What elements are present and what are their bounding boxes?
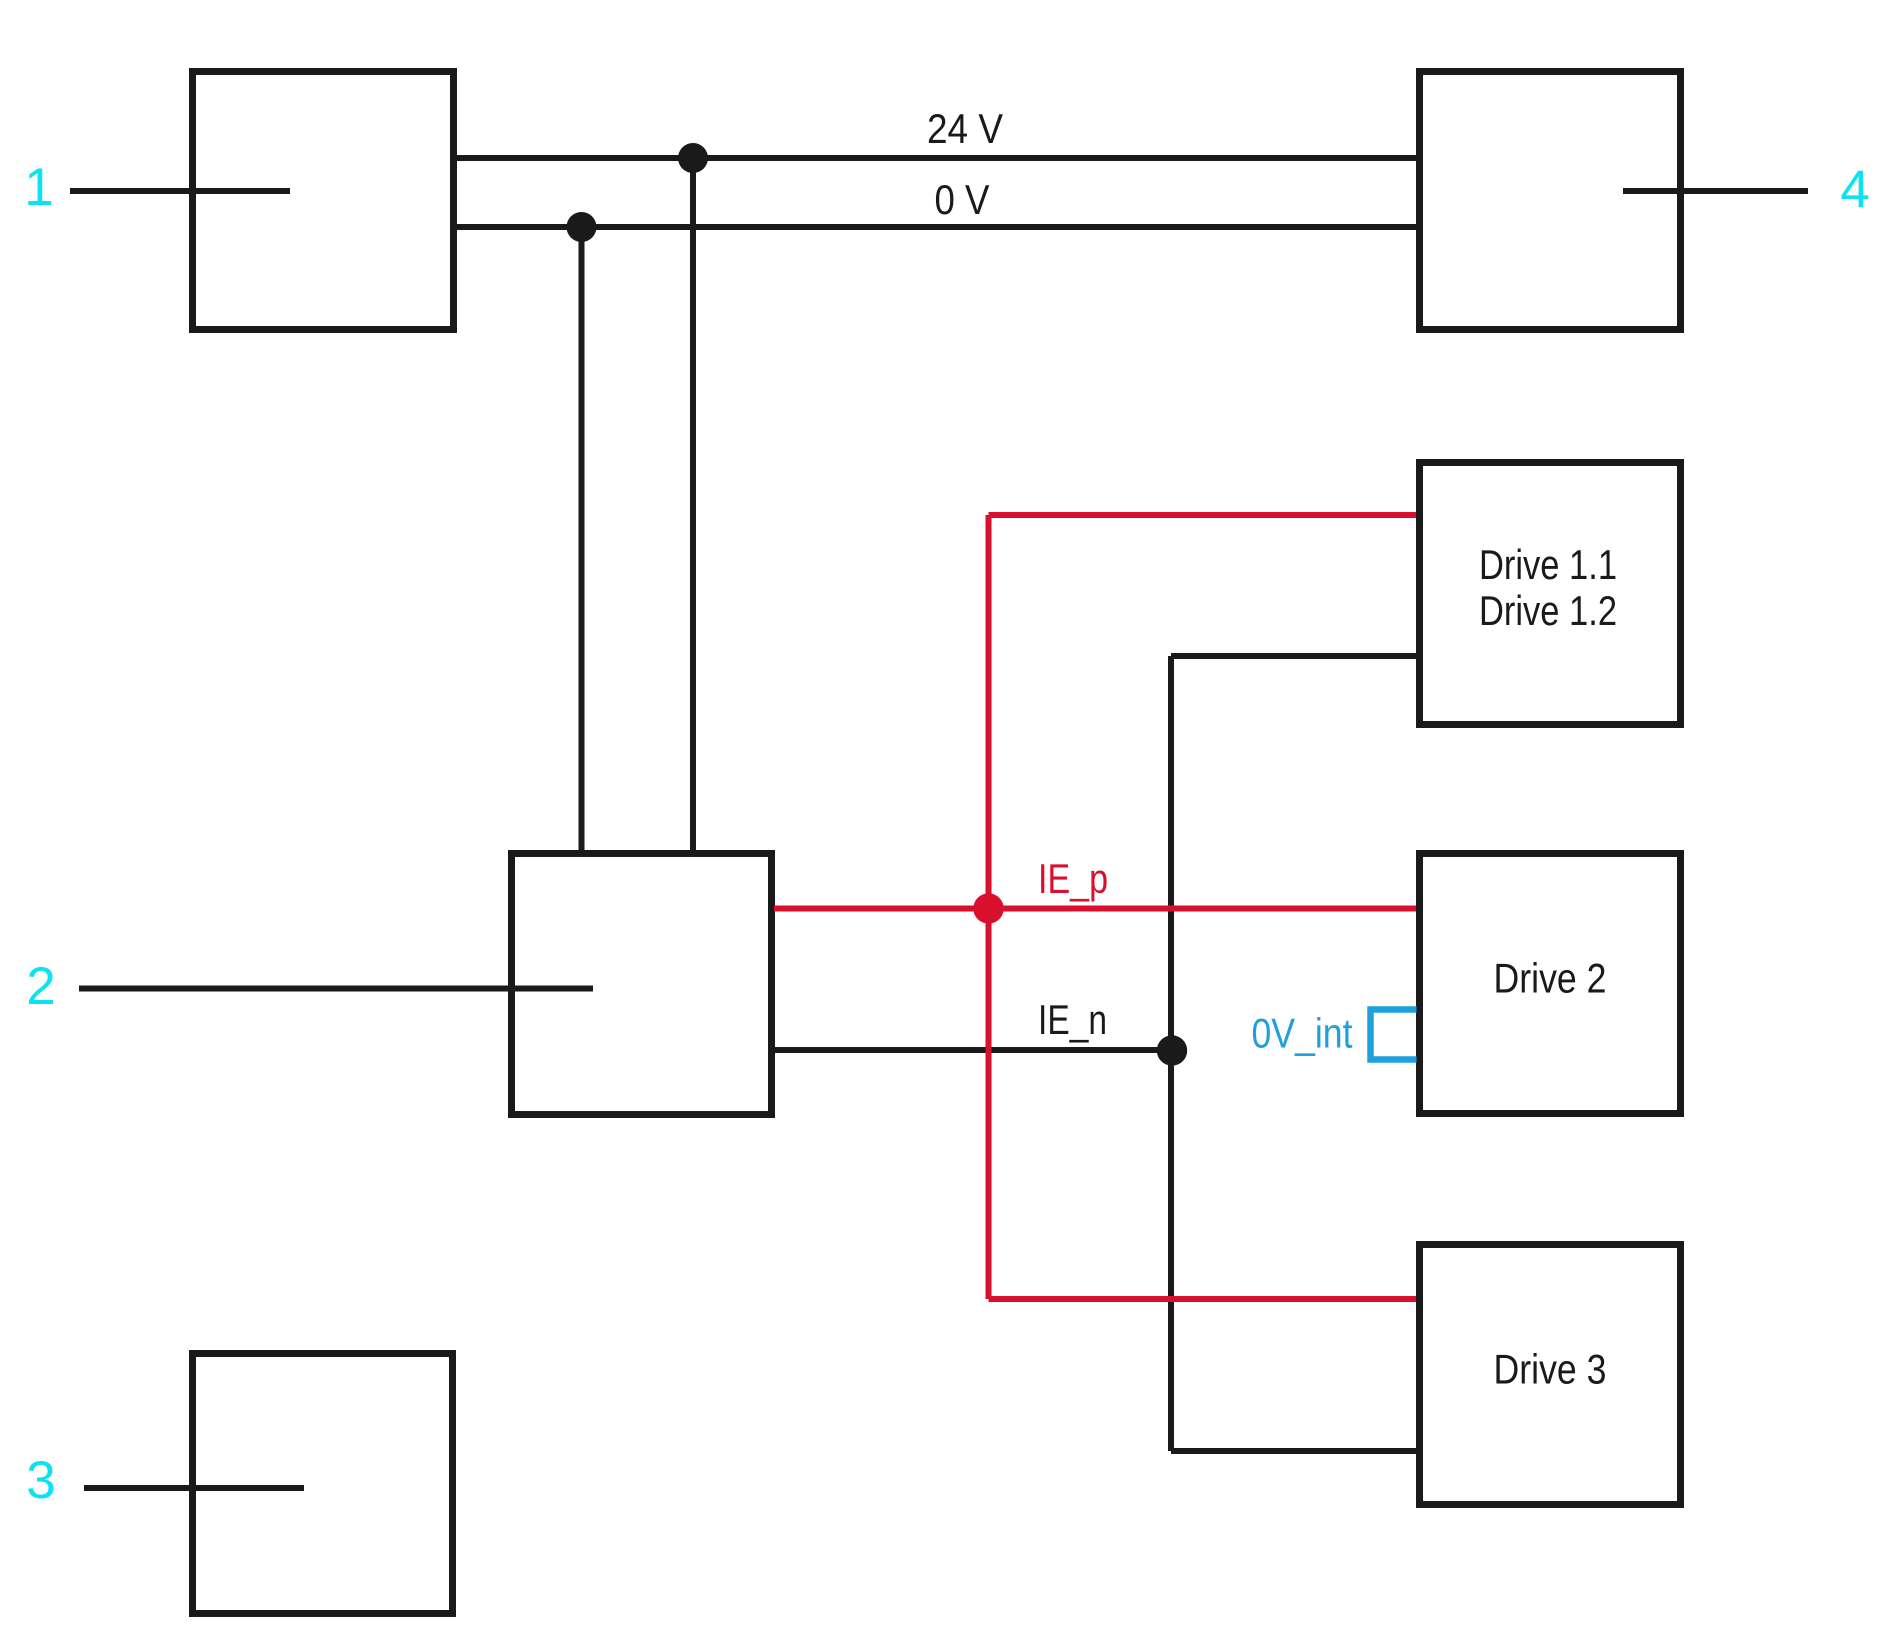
svg-text:1: 1	[24, 158, 53, 217]
svg-text:Drive 2: Drive 2	[1494, 955, 1607, 1002]
svg-text:2: 2	[26, 957, 55, 1016]
svg-text:4: 4	[1840, 161, 1869, 220]
svg-text:3: 3	[26, 1451, 55, 1510]
svg-text:IE_p: IE_p	[1038, 855, 1108, 902]
svg-text:Drive 3: Drive 3	[1494, 1346, 1607, 1393]
svg-text:IE_n: IE_n	[1038, 996, 1107, 1043]
svg-text:Drive 1.2: Drive 1.2	[1479, 587, 1617, 634]
svg-text:24 V: 24 V	[927, 105, 1003, 152]
svg-text:Drive 1.1: Drive 1.1	[1479, 541, 1617, 588]
svg-text:0 V: 0 V	[935, 176, 990, 223]
svg-text:0V_int: 0V_int	[1252, 1010, 1353, 1057]
